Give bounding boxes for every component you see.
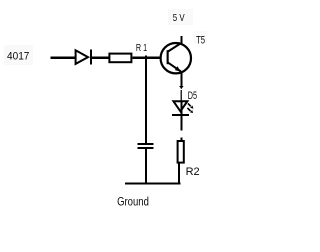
svg-text:4017: 4017: [7, 50, 30, 63]
svg-text:5 V: 5 V: [173, 12, 185, 23]
svg-text:Ground: Ground: [117, 196, 149, 209]
svg-text:R2: R2: [186, 166, 200, 178]
svg-text:D5: D5: [188, 90, 197, 102]
svg-text:T5: T5: [196, 34, 205, 47]
svg-text:R 1: R 1: [136, 42, 147, 53]
